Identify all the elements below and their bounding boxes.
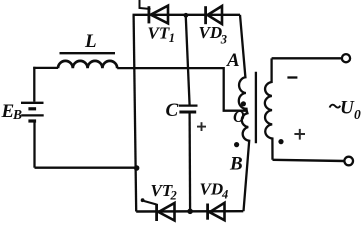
transformer primary winding bbox=[239, 15, 249, 211]
svg-text:1: 1 bbox=[169, 31, 175, 45]
svg-text:A: A bbox=[226, 50, 240, 71]
svg-text:U: U bbox=[340, 98, 355, 119]
node dot secondary polarity bbox=[278, 139, 283, 144]
label EB bbox=[1, 101, 23, 122]
node dot primary upper polarity bbox=[241, 101, 246, 106]
battery EB bbox=[21, 103, 44, 121]
wire top bus bbox=[133, 14, 241, 16]
diode VD3 bbox=[206, 6, 222, 24]
svg-text:O: O bbox=[233, 107, 245, 126]
wire output bottom bbox=[273, 160, 345, 161]
terminal top bbox=[342, 54, 350, 62]
svg-text:VD: VD bbox=[200, 180, 224, 199]
svg-text:B: B bbox=[229, 154, 243, 175]
label VD4 bbox=[200, 180, 229, 202]
svg-text:VT: VT bbox=[151, 181, 173, 200]
capacitor C bbox=[179, 106, 198, 112]
label plus output bbox=[294, 129, 305, 140]
label VT1 bbox=[148, 24, 176, 45]
svg-text:3: 3 bbox=[220, 32, 227, 46]
wire middle rail upper bbox=[186, 15, 190, 105]
wire middle rail lower bbox=[188, 112, 191, 211]
node dot primary lower polarity bbox=[234, 142, 239, 147]
wire battery top stem bbox=[33, 67, 35, 102]
inductor core bar bbox=[60, 52, 116, 54]
wire left rail bbox=[134, 15, 137, 212]
svg-text:B: B bbox=[12, 107, 22, 122]
svg-text:C: C bbox=[166, 100, 179, 121]
node dot junction top middle bbox=[184, 13, 189, 18]
svg-text:VD: VD bbox=[199, 23, 223, 42]
label VT2 bbox=[151, 181, 177, 203]
wire feed right segment to center tap bbox=[117, 68, 246, 111]
wire output top bbox=[272, 57, 342, 59]
wire bottom bus bbox=[136, 210, 243, 213]
terminal bottom bbox=[344, 157, 353, 166]
diode VD4 bbox=[208, 203, 225, 220]
svg-text:4: 4 bbox=[221, 188, 228, 202]
svg-text:0: 0 bbox=[354, 107, 361, 122]
inductor L bbox=[58, 61, 117, 68]
thyristor VT1 bbox=[140, 0, 169, 23]
node dot junction left rail return bbox=[134, 165, 140, 171]
svg-text:2: 2 bbox=[170, 189, 177, 203]
svg-text:L: L bbox=[84, 31, 97, 52]
wire feed left segment bbox=[33, 67, 58, 69]
node dot junction bottom middle bbox=[187, 209, 193, 215]
thyristor VT2 bbox=[141, 198, 175, 221]
label minus bbox=[287, 76, 297, 78]
transformer secondary winding bbox=[265, 58, 273, 159]
transformer core bbox=[255, 72, 257, 143]
wire battery return bottom bbox=[35, 167, 137, 169]
svg-text:VT: VT bbox=[148, 24, 170, 43]
wire battery bottom stem bbox=[33, 122, 35, 168]
label plus capacitor bbox=[197, 122, 206, 131]
label U0 output bbox=[330, 98, 361, 122]
label VD3 bbox=[199, 23, 227, 46]
